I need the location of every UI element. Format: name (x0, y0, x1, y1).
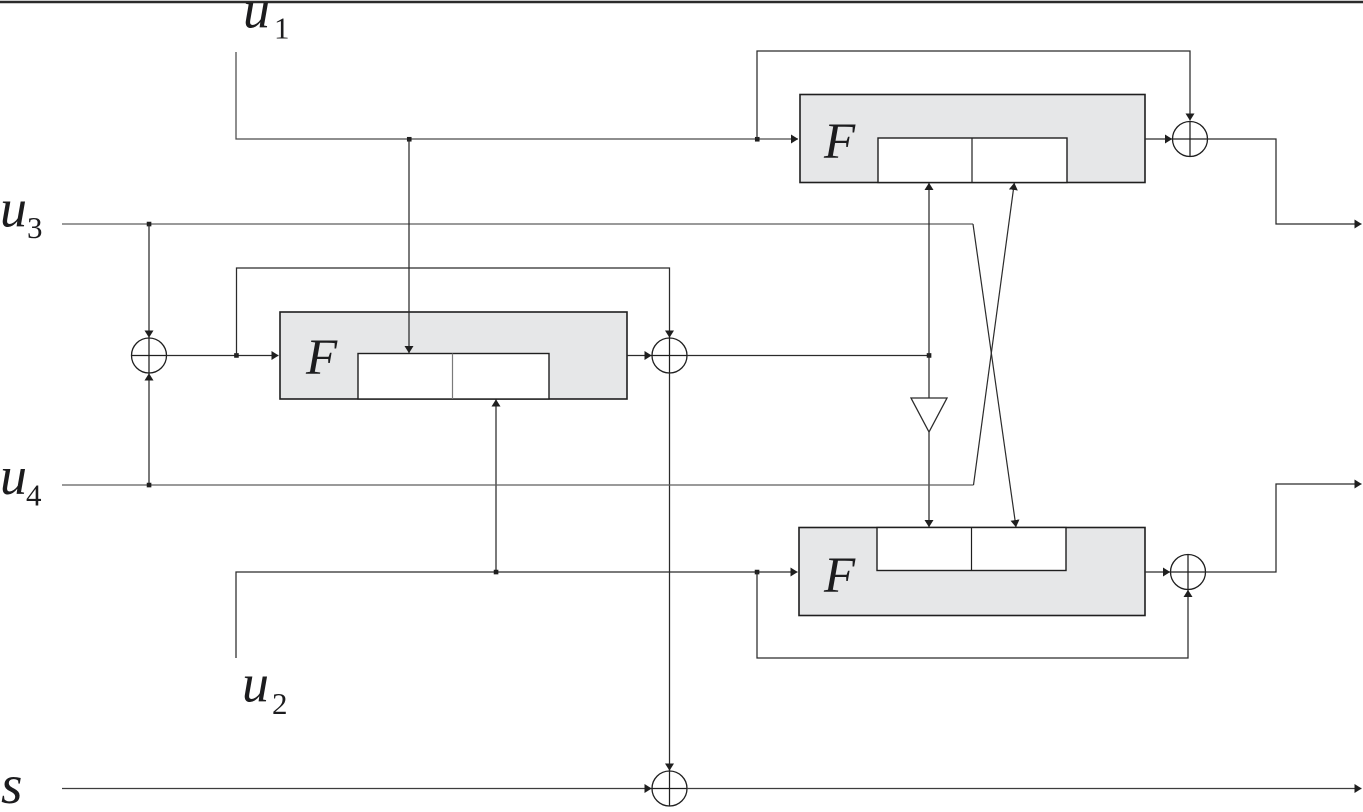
svg-text:u: u (242, 654, 269, 714)
xor X2 (left adder) (132, 338, 167, 373)
wire X2 output to F2 (167, 355, 279, 357)
F-box U2 (middle) (280, 312, 627, 399)
junction u1-to-middle-F (407, 137, 412, 142)
node u2 label (242, 654, 288, 722)
register cells U1 (878, 138, 1067, 183)
wire u2 input (236, 572, 798, 658)
wire down to buffer (928, 356, 930, 398)
F-box U3 (bottom) (799, 528, 1145, 616)
wire u3 to xor X2 (148, 224, 150, 338)
svg-text:1: 1 (274, 11, 290, 46)
svg-text:u: u (243, 0, 270, 40)
node u4 label (0, 446, 42, 513)
wire feedback top F1 (757, 51, 1190, 139)
xor X1 (top right) (1173, 122, 1208, 157)
wire output y2 (1206, 484, 1362, 572)
wire u3 (62, 223, 973, 225)
wire up to cell U1 (928, 183, 930, 356)
wire F1 output (1145, 138, 1172, 140)
junction F3-feedback (755, 570, 760, 575)
svg-text:2: 2 (272, 686, 288, 721)
xor X4 (bottom right) (1171, 555, 1206, 590)
xor X3 (middle right) (652, 338, 687, 373)
wire u2 to cell U2 (495, 400, 497, 573)
node u3 label (0, 179, 43, 246)
wire feedback F2 (237, 268, 670, 356)
wire output y1 (1208, 139, 1362, 224)
wire buffer to cell U3 (928, 432, 930, 527)
svg-text:F: F (823, 114, 856, 170)
register cells U3 (877, 528, 1066, 571)
buffer T1 (down triangle) (911, 398, 947, 432)
register cells U2 (358, 354, 549, 400)
wire X3 output (687, 355, 929, 357)
wire u4 to xor X2 (148, 374, 150, 486)
wire s output (687, 788, 1362, 790)
wire u4 (62, 484, 974, 486)
junction u4-xor (147, 483, 152, 488)
F-box U1 (top) (800, 95, 1145, 183)
wire F2 output (627, 355, 652, 357)
wire u1 input (236, 52, 798, 139)
wire X3 down to X5 (669, 373, 671, 771)
junction u1-feedback (755, 137, 760, 142)
junction u3-xor (147, 222, 152, 227)
wire feedback F3 (757, 572, 1188, 658)
wire F3 output (1145, 571, 1170, 573)
junction F2-feedback (234, 353, 239, 358)
wire u1 to cell U2 (408, 139, 410, 353)
svg-text:F: F (305, 330, 338, 386)
svg-text:s: s (1, 754, 22, 807)
svg-text:4: 4 (26, 478, 42, 513)
svg-text:u: u (0, 179, 27, 239)
svg-text:u: u (0, 446, 27, 506)
svg-text:F: F (823, 548, 856, 604)
junction u2-to-cell (494, 570, 499, 575)
wire s input (62, 788, 652, 790)
wire cross diagonal u3-to-F3 (973, 224, 1016, 527)
wire cross diagonal u4-to-F1 (974, 183, 1015, 485)
xor X5 (s line) (652, 771, 687, 806)
svg-text:3: 3 (27, 210, 43, 245)
node u1 label (243, 0, 290, 46)
junction X3-output (927, 353, 932, 358)
